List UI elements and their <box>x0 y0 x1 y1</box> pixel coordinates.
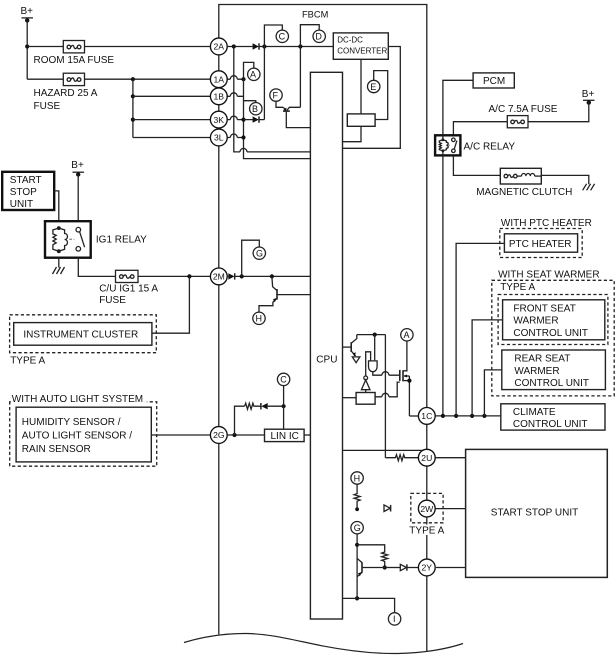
TYPE A dashed box around 2W <box>411 493 443 522</box>
wire PCM to relay coil <box>443 80 473 135</box>
CPU box <box>310 72 342 619</box>
svg-text:FBCM: FBCM <box>302 9 328 19</box>
ground arrow (open triangle) <box>352 357 360 363</box>
pin 2W <box>418 500 435 517</box>
label node B <box>252 104 258 114</box>
svg-text:PCM: PCM <box>483 76 505 87</box>
svg-text:2A: 2A <box>214 42 225 52</box>
svg-text:B: B <box>252 104 258 114</box>
svg-text:ROOM 15A FUSE: ROOM 15A FUSE <box>34 55 115 66</box>
svg-text:G: G <box>256 249 263 259</box>
svg-text:3L: 3L <box>214 133 224 143</box>
wave break line <box>184 633 463 653</box>
label HAZARD 25 A FUSE <box>34 88 98 112</box>
junction 2A D node <box>298 44 302 48</box>
wire bus to 3L <box>133 137 211 139</box>
node A circle (MOSFET drain) <box>401 329 413 341</box>
wire sensors to 2G <box>151 434 210 436</box>
node H circle (bottom) with resistor stub <box>351 472 363 511</box>
svg-text:INSTRUMENT CLUSTER: INSTRUMENT CLUSTER <box>23 329 138 340</box>
wire 1A rail <box>227 78 243 80</box>
svg-text:A: A <box>250 70 256 80</box>
svg-text:H: H <box>354 473 361 483</box>
INSTRUMENT CLUSTER box <box>14 323 152 346</box>
wire 2A node down to 3K diode <box>263 47 265 120</box>
svg-text:B+: B+ <box>71 160 84 171</box>
START STOP UNIT box (left) <box>2 172 54 210</box>
wire relay switch to magnetic clutch <box>453 155 500 175</box>
resistor R (LIN pullup) <box>245 403 261 409</box>
label node F <box>273 90 279 100</box>
transistor Q (key-off drain, left of gates) <box>343 335 357 357</box>
pin 2M <box>210 268 227 285</box>
hop 3L rail <box>230 134 237 137</box>
label node A (MOSFET) <box>404 330 410 340</box>
svg-text:C/U IG1 15 A: C/U IG1 15 A <box>99 283 158 294</box>
node D hook <box>300 25 325 47</box>
pin 2Y <box>418 559 435 576</box>
resistor R (base) <box>357 545 388 568</box>
wire CPU to driver block <box>343 397 357 399</box>
label WITH SEAT WARMER <box>498 269 599 280</box>
wire DC-DC right to CPU <box>343 47 401 149</box>
relay IG1 coil <box>53 226 68 253</box>
wire B+ down to IG1 relay switch <box>77 175 79 222</box>
wire ROOM fuse to 2A <box>85 46 211 48</box>
label ROOM 15A FUSE <box>34 55 115 66</box>
LIN IC box <box>265 429 305 441</box>
wire 2A hop branch down and right to CPU <box>234 47 311 152</box>
wire driver block to MOSFET gate <box>375 382 400 397</box>
svg-text:C: C <box>279 32 286 42</box>
wire 2G rail to LIN IC <box>227 434 264 436</box>
driver block box <box>356 393 375 405</box>
svg-text:2W: 2W <box>420 504 434 514</box>
label TYPE A (instrument cluster) <box>10 355 45 366</box>
REAR SEAT WARMER CONTROL UNIT box <box>502 350 606 390</box>
label node I <box>393 614 396 624</box>
svg-text:WARMER: WARMER <box>514 366 559 377</box>
wire 3L rail <box>227 137 243 139</box>
wire node down to LIN IC <box>283 406 285 429</box>
svg-text:TYPE A: TYPE A <box>10 355 45 366</box>
svg-text:1B: 1B <box>214 92 225 102</box>
svg-text:A/C RELAY: A/C RELAY <box>464 142 516 153</box>
svg-text:IG1 RELAY: IG1 RELAY <box>96 235 147 246</box>
wire 1B rail <box>227 95 243 97</box>
hop over bus on CPU wire <box>240 148 247 151</box>
DC-DC converter box U1 <box>333 33 388 59</box>
svg-text:FRONT SEAT: FRONT SEAT <box>513 303 575 314</box>
wire bus to 3K <box>133 119 211 121</box>
transistor F <box>270 89 311 128</box>
transistor Q (2Y driver) <box>357 558 385 576</box>
label node E <box>370 82 376 92</box>
junction rear-seat riser <box>482 414 486 418</box>
wire coil bottom to CPU <box>343 126 362 141</box>
battery B+ terminal top-left <box>22 18 34 23</box>
WITH PTC HEATER dashed box <box>500 229 582 258</box>
junction PTC riser <box>454 414 458 418</box>
wire AND output to MOSFET gate <box>373 372 400 375</box>
label A/C RELAY <box>464 142 516 153</box>
hop 1B rail <box>230 93 237 96</box>
label B+ top-left <box>21 6 34 17</box>
HUMIDITY / AUTO LIGHT / RAIN SENSOR box <box>16 407 151 462</box>
hop driver wire over feedback <box>382 393 389 397</box>
wire B+ to A/C fuse <box>528 103 589 122</box>
transistor Q (2M monitor) <box>259 276 310 312</box>
battery B+ terminal right <box>583 100 595 105</box>
WITH AUTO LIGHT SYSTEM dashed box <box>10 402 157 466</box>
svg-text:MAGNETIC CLUTCH: MAGNETIC CLUTCH <box>476 187 572 198</box>
svg-text:CONTROL UNIT: CONTROL UNIT <box>513 419 588 430</box>
WITH SEAT WARMER outer dashed box <box>492 280 614 396</box>
wire 2A rail into FBCM <box>227 46 333 48</box>
diode D (LIN) pointing left <box>261 403 284 409</box>
fuse ROOM 15A <box>63 41 84 53</box>
wire riser to PTC heater <box>456 243 504 416</box>
wire switch to C/U fuse <box>78 258 115 277</box>
junction base node <box>383 565 387 569</box>
node G circle (bottom) <box>351 522 363 599</box>
wire HAZARD fuse to 1A <box>85 78 211 80</box>
label A/C 7.5A FUSE <box>489 104 558 115</box>
wire coil to ground <box>58 258 60 268</box>
svg-text:WITH AUTO LIGHT SYSTEM: WITH AUTO LIGHT SYSTEM <box>12 394 143 405</box>
node G hook <box>242 240 266 276</box>
FRONT SEAT dashed box <box>498 295 608 345</box>
svg-text:WITH SEAT WARMER: WITH SEAT WARMER <box>498 269 599 280</box>
junction G hook node <box>240 274 244 278</box>
node I circle <box>388 613 400 625</box>
junction transistor branch <box>270 274 274 278</box>
wire SSU to IG1 relay coil <box>54 191 59 221</box>
fuse C/U IG1 15A <box>116 270 139 282</box>
svg-text:CPU: CPU <box>316 355 337 366</box>
svg-text:START: START <box>10 175 42 186</box>
svg-text:I: I <box>393 614 396 624</box>
PCM box <box>473 73 514 88</box>
wire clutch to ground <box>541 175 589 184</box>
pin 2G <box>210 427 227 444</box>
wire B+ down to fuse rails <box>26 20 28 79</box>
wire CPU to FBCM edge (1C-2U link) <box>343 449 427 451</box>
label IG1 RELAY <box>96 235 147 246</box>
svg-text:TYPE A: TYPE A <box>409 525 444 536</box>
FBCM module box <box>219 5 427 652</box>
relay A/C switch <box>448 138 457 153</box>
gate U (AND, pointing down) <box>369 361 378 372</box>
wire fuse to relay switch <box>453 122 507 136</box>
wire 2W to start stop unit <box>435 508 466 510</box>
svg-text:PTC HEATER: PTC HEATER <box>509 239 572 250</box>
svg-text:E: E <box>370 82 376 92</box>
relay A/C box <box>435 135 460 155</box>
wire 2M rail into FBCM <box>227 275 310 277</box>
label FBCM <box>302 9 328 19</box>
wire 2U to start stop unit <box>435 457 465 459</box>
pin 2U <box>418 449 435 466</box>
wire hazard distribution bus <box>132 79 134 137</box>
junction 2A diode node <box>262 44 266 48</box>
wire CPU sink rail <box>343 598 395 612</box>
node E hook <box>368 71 388 120</box>
svg-text:B+: B+ <box>582 89 595 100</box>
START STOP UNIT box (right) <box>466 449 608 577</box>
svg-text:TYPE A: TYPE A <box>500 282 535 293</box>
inverter loop to AND input 2 <box>366 352 371 376</box>
junction 1A bus <box>241 77 245 81</box>
svg-text:2M: 2M <box>213 272 225 282</box>
label B+ mid-left <box>71 160 84 171</box>
svg-text:RAIN SENSOR: RAIN SENSOR <box>22 444 91 455</box>
wire MOSFET source to 1C <box>409 415 418 417</box>
diode on 2A rail <box>253 43 259 49</box>
SECTIONS INSERTED BELOW <box>22 5 427 652</box>
svg-text:CONTROL UNIT: CONTROL UNIT <box>514 378 589 389</box>
svg-text:2Y: 2Y <box>422 563 433 573</box>
diode on 2M rail <box>228 273 234 279</box>
wire AND input 1 <box>374 335 376 361</box>
relay A/C coil <box>439 135 448 155</box>
node C circle (LIN) <box>277 373 289 406</box>
wire feedback resistor to 2U <box>385 455 418 461</box>
svg-text:3K: 3K <box>214 115 225 125</box>
wire feedback vertical to 2U resistor <box>384 335 386 458</box>
svg-text:FUSE: FUSE <box>99 295 126 306</box>
svg-text:D: D <box>315 32 322 42</box>
wire D node down to F collector <box>299 47 301 108</box>
label node C (LIN) <box>280 375 287 385</box>
node B hook <box>244 101 263 115</box>
wire fuse to 2M <box>138 275 210 277</box>
pin 1B <box>210 88 227 105</box>
wire relay coil down to 1C rail <box>442 155 444 416</box>
relay IG1 switch <box>69 227 84 251</box>
svg-text:F: F <box>273 90 279 100</box>
svg-text:2G: 2G <box>213 430 225 440</box>
hop 3K rail <box>230 116 237 120</box>
pin 1C <box>418 408 435 425</box>
label C/U IG1 15 A FUSE <box>99 283 158 306</box>
node H circle (mid) <box>253 312 265 324</box>
wire collector top rail <box>357 334 386 336</box>
transistor Q2 (MOSFET high-side) <box>400 341 410 416</box>
svg-text:WARMER: WARMER <box>513 316 558 327</box>
junction front-seat riser <box>470 414 474 418</box>
wire hazard rail <box>27 78 63 80</box>
label node H (bottom) <box>354 473 361 483</box>
junction 2A hop-bus <box>232 44 236 48</box>
svg-text:STOP: STOP <box>10 187 37 198</box>
node A hook <box>244 62 261 80</box>
svg-text:CONVERTER: CONVERTER <box>337 46 387 55</box>
diode on 3K rail <box>253 116 259 122</box>
junction at B+ split <box>25 44 29 48</box>
label node G (mid) <box>256 249 263 259</box>
FRONT SEAT WARMER CONTROL UNIT box <box>503 300 605 340</box>
label B+ right <box>582 89 595 100</box>
ground right of clutch <box>583 184 595 191</box>
hop 1A rail <box>230 76 237 79</box>
junction hazard bus top <box>131 77 135 81</box>
svg-text:A/C 7.5A FUSE: A/C 7.5A FUSE <box>489 104 558 115</box>
fuse A/C 7.5A <box>507 116 528 128</box>
wire branch up to resistor <box>235 406 245 435</box>
MAGNETIC CLUTCH box <box>500 168 541 184</box>
wire 1C rail to climate unit <box>435 415 501 417</box>
svg-text:UNIT: UNIT <box>10 199 33 210</box>
svg-text:HAZARD 25 A: HAZARD 25 A <box>34 88 98 99</box>
ground below IG1 coil <box>53 267 65 274</box>
label node H (mid) <box>256 314 263 324</box>
label MAGNETIC CLUTCH <box>476 187 572 198</box>
svg-text:2U: 2U <box>421 453 432 463</box>
svg-text:B+: B+ <box>21 6 34 17</box>
wire bus to 1B <box>133 95 211 97</box>
pin 3L <box>210 129 227 146</box>
label WITH PTC HEATER <box>501 218 592 229</box>
svg-text:AUTO LIGHT SENSOR /: AUTO LIGHT SENSOR / <box>22 431 132 442</box>
pin 3K <box>210 111 227 128</box>
svg-text:DC-DC: DC-DC <box>337 35 363 44</box>
junction bus 1B <box>131 94 135 98</box>
junction MOSFET source <box>407 379 411 383</box>
wire DC-DC bottom to coil <box>360 59 362 114</box>
svg-text:G: G <box>354 523 361 533</box>
junction bus 3K <box>131 118 135 122</box>
wire down to instrument cluster <box>152 276 190 333</box>
label node G (bottom) <box>354 523 361 533</box>
battery B+ terminal mid-left <box>73 172 85 177</box>
svg-text:C: C <box>280 375 287 385</box>
CLIMATE CONTROL UNIT box <box>501 404 605 430</box>
wire riser to rear seat warmer <box>484 370 501 416</box>
PTC HEATER box <box>504 234 577 252</box>
label TYPE A (2W) <box>408 525 447 537</box>
label WITH AUTO LIGHT SYSTEM <box>11 393 147 405</box>
label node A <box>250 70 256 80</box>
wire bus 1A-to-3L <box>244 79 311 158</box>
junction C-LIN node <box>282 404 286 408</box>
svg-text:CLIMATE: CLIMATE <box>513 407 556 418</box>
gate U (NOT, pointing up) with bubble <box>361 376 370 393</box>
wire 3K to diode <box>244 119 265 121</box>
junction 2G branch <box>232 433 236 437</box>
relay coil box <box>347 114 375 126</box>
wire 2Y to start stop unit <box>436 567 466 569</box>
fuse HAZARD 25A <box>63 73 84 85</box>
svg-text:WITH PTC HEATER: WITH PTC HEATER <box>501 218 592 229</box>
label node D <box>315 32 322 42</box>
svg-text:A: A <box>404 330 410 340</box>
svg-text:FUSE: FUSE <box>34 101 61 112</box>
svg-text:H: H <box>256 314 263 324</box>
pin 2A <box>210 38 227 55</box>
junction G resistor branch <box>355 543 359 547</box>
label TYPE A (seat warmer) <box>500 282 535 293</box>
junction 3K bus <box>241 118 245 122</box>
svg-text:1C: 1C <box>421 411 432 421</box>
svg-text:HUMIDITY SENSOR /: HUMIDITY SENSOR / <box>22 417 121 428</box>
label node C <box>279 32 286 42</box>
svg-text:LIN IC: LIN IC <box>271 431 299 442</box>
diode (floating, near 2W) <box>384 505 391 512</box>
wire B+ to ROOM fuse <box>27 46 63 48</box>
pin 1A <box>210 71 227 88</box>
wire LIN IC to CPU <box>304 434 310 436</box>
junction instrument-cluster branch <box>187 274 191 278</box>
svg-text:REAR SEAT: REAR SEAT <box>514 354 570 365</box>
junction CPU sink node <box>355 596 359 600</box>
svg-text:1A: 1A <box>214 74 225 84</box>
INSTRUMENT CLUSTER dashed variant box <box>10 315 157 353</box>
label CPU <box>316 355 337 366</box>
diode on 2Y rail (open) <box>385 564 419 570</box>
junction AC relay riser <box>441 414 445 418</box>
label LIN IC <box>271 431 299 442</box>
junction AND input <box>373 333 377 337</box>
svg-text:CONTROL UNIT: CONTROL UNIT <box>513 328 588 339</box>
node C hook <box>264 25 288 47</box>
wire 3K rail <box>227 119 243 121</box>
relay IG1 box <box>45 221 91 258</box>
svg-text:START STOP UNIT: START STOP UNIT <box>491 507 578 518</box>
wire riser to front seat warmer <box>472 320 503 416</box>
hop AND output over feedback <box>382 372 389 376</box>
junction 3L bus <box>241 135 245 139</box>
